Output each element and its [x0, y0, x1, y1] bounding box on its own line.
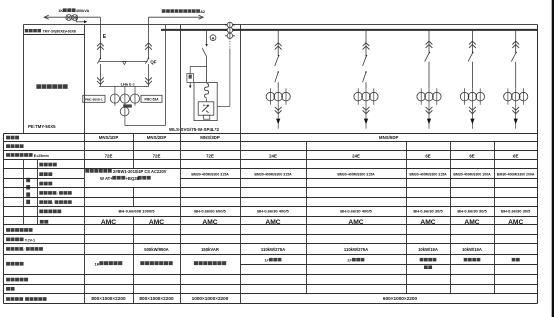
- feeder F5 CT b: [362, 92, 371, 101]
- svg-text:BM30-400M/3300 315A: BM30-400M/3300 315A: [191, 173, 229, 177]
- feeder F7 breaker switch: [472, 52, 474, 54]
- svg-text:BM30-400M/3300 200A: BM30-400M/3300 200A: [497, 173, 535, 177]
- power module IGBT glyph: [202, 105, 209, 111]
- svg-text:PE:TMY-50X5: PE:TMY-50X5: [28, 124, 56, 129]
- row: circuit number label: [6, 144, 10, 148]
- wire: phase a drop: [114, 86, 116, 105]
- feeder F5 phase wires: [357, 88, 359, 105]
- feeder F5 CT c: [370, 92, 379, 101]
- wire: joined bus below incomers: [99, 85, 149, 87]
- svg-text:110kW/275A: 110kW/275A: [261, 247, 285, 252]
- section divider right edge: [537, 25, 539, 134]
- wire: SVG right loop: [229, 22, 231, 38]
- svg-text:10kW/19A: 10kW/19A: [418, 247, 438, 252]
- svg-text:PMC-880D-L: PMC-880D-L: [85, 98, 103, 102]
- feeder F7 drawout contact (bottom): [469, 107, 476, 110]
- feeder F6 drawout contact (top): [426, 41, 433, 44]
- breaker E switch: [100, 57, 102, 59]
- drawout contact (bottom) of breaker QF: [145, 78, 152, 81]
- row: drawer unit height: [6, 153, 10, 157]
- feeder F8 CT b: [511, 92, 520, 101]
- surge arrester F1: [187, 74, 194, 83]
- feeder F6 drop wire: [428, 30, 430, 52]
- svg-text:E=25mm: E=25mm: [34, 154, 49, 158]
- breaker QF switch: [148, 57, 150, 59]
- main busbar line 2: [161, 29, 538, 31]
- svg-text:BH-0.66/30 400/5: BH-0.66/30 400/5: [257, 209, 289, 214]
- svg-text:BH-0.66/30 400/5: BH-0.66/30 400/5: [340, 209, 372, 214]
- svg-text:10kW/19A: 10kW/19A: [462, 247, 482, 252]
- svg-text:AMC: AMC: [101, 219, 116, 226]
- feeder F4 drawout contact (bottom): [275, 107, 282, 110]
- svg-text:MNS/1DP: MNS/1DP: [99, 135, 119, 140]
- feeder F5 drawout contact (bottom): [363, 107, 370, 110]
- feeder F4 phase wires: [269, 88, 271, 105]
- svg-text:A2: A2: [200, 10, 205, 14]
- svg-text:+BQ2B: +BQ2B: [125, 176, 139, 181]
- section divider (scheme cell): [23, 25, 25, 134]
- feeder F7 CT b: [468, 92, 477, 101]
- neutral CT circle: [120, 107, 129, 116]
- svg-text:AMC: AMC: [149, 219, 164, 226]
- feeder F8 phase wires: [507, 88, 509, 105]
- svg-text:BH-0.66/30 30/5: BH-0.66/30 30/5: [457, 209, 487, 214]
- svg-text:BH-0.66/60 600/5: BH-0.66/60 600/5: [194, 209, 226, 214]
- main horizontal line 1 (top border / PE bus): [24, 24, 538, 26]
- svg-text:MNS/5DP: MNS/5DP: [379, 135, 399, 140]
- CT 1LHb label: [123, 104, 132, 107]
- svg-text:AMC: AMC: [508, 219, 523, 226]
- feeder F8 breaker switch: [515, 52, 517, 54]
- row label: cabinet size WxDxH: [6, 297, 10, 301]
- feeder F4 drop wire: [277, 30, 279, 55]
- svg-text:BM30-400M/3300 315A: BM30-400M/3300 315A: [254, 173, 292, 177]
- svg-text:24E: 24E: [352, 153, 360, 158]
- wire: arrester branch: [190, 65, 206, 67]
- feeder F6 CT c: [433, 92, 442, 101]
- section divider x180: [180, 25, 182, 134]
- meter PMC-53A box: [141, 95, 162, 102]
- wire: SVG feeder drop: [206, 30, 208, 45]
- drawout contact (bottom) of breaker E: [97, 78, 104, 81]
- svg-text:PMC-53A: PMC-53A: [145, 98, 160, 102]
- feeder F7 outgoing arrow: [470, 119, 474, 125]
- feeder F7 drop wire: [471, 30, 473, 52]
- section divider x84: [84, 25, 86, 134]
- svg-text:AMC: AMC: [348, 219, 363, 226]
- feeder F6 drawout contact (bottom): [426, 107, 433, 110]
- transformer T1 incoming line: [44, 16, 100, 18]
- svg-text:BH-0.66/60II 1000/5: BH-0.66/60II 1000/5: [118, 209, 155, 214]
- row label: transformer/soft starter: [39, 200, 43, 204]
- feeder F7 CT a: [460, 92, 469, 101]
- feeder F6 breaker switch: [429, 52, 431, 54]
- svg-text:MNS/3DP: MNS/3DP: [200, 135, 220, 140]
- svg-text:BM30-400M/3300 315A: BM30-400M/3300 315A: [409, 173, 447, 177]
- svg-text:BH-0.66/30 30/5: BH-0.66/30 30/5: [501, 209, 531, 214]
- wire: metering loop riser: [165, 25, 167, 126]
- SVG reactor coil: [205, 84, 209, 98]
- transformer T1 (1K working transformer 400kVA) two-circle symbol: [66, 15, 72, 21]
- svg-text:AMC: AMC: [265, 219, 280, 226]
- sheet border line (right edge): [552, 0, 554, 317]
- lighting sub-row: [424, 266, 428, 270]
- feeder F4 CT c: [282, 92, 291, 101]
- svg-text:BH-0.66/30 30/5: BH-0.66/30 30/5: [413, 209, 443, 214]
- row: cabinet numbers: [6, 136, 10, 140]
- SVG power module box U1: [198, 102, 214, 115]
- feeder F8 drawout contact (top): [512, 41, 519, 44]
- feeder F4 outgoing arrow: [276, 119, 280, 125]
- feeder F4 drawout contact (top): [275, 43, 282, 46]
- feeder F4 CT b: [274, 92, 283, 101]
- busbar spec box: [24, 34, 85, 36]
- svg-text:400kVA: 400kVA: [76, 9, 90, 13]
- svg-text:AMC: AMC: [202, 219, 217, 226]
- sub-row divider (lighting row): [241, 264, 538, 266]
- feeder F5 breaker switch (double break): [366, 55, 368, 57]
- svg-text:QF: QF: [150, 59, 156, 64]
- row label: secondary schematic: [6, 278, 10, 282]
- svg-text:BM30-400M/3300 315A: BM30-400M/3300 315A: [337, 173, 375, 177]
- svg-text:AMC: AMC: [464, 219, 479, 226]
- feeder F4 breaker switch (double break): [278, 55, 280, 57]
- drawout contact (top) of breaker QF: [145, 43, 152, 46]
- row label: remarks: [6, 287, 10, 291]
- svg-text:6E: 6E: [425, 153, 430, 158]
- CT LHb: [120, 94, 129, 103]
- meter PMC-880D-L box: [83, 95, 105, 102]
- feeder F4 CT a: [266, 92, 275, 101]
- svg-text:1000×1000×2200: 1000×1000×2200: [192, 296, 229, 301]
- feeder F7 phase wires: [464, 88, 466, 105]
- svg-text:600×1000×2200: 600×1000×2200: [383, 296, 418, 301]
- row label: contactor: [39, 182, 43, 186]
- feeder F5 outgoing arrow: [364, 119, 368, 125]
- svg-text:WLS-SVG/75-W-SP4L*2: WLS-SVG/75-W-SP4L*2: [169, 127, 219, 132]
- svg-text:800×1000×2200: 800×1000×2200: [91, 296, 126, 301]
- row label: cable type: [6, 238, 10, 242]
- svg-text:LHa b c: LHa b c: [121, 81, 136, 86]
- svg-text:110kW/275A: 110kW/275A: [344, 247, 368, 252]
- row label: circuit name: [6, 262, 10, 266]
- wire: centre phase drop: [124, 86, 126, 126]
- SVG breaker switch: [202, 48, 206, 56]
- drawout contact (top) of breaker E: [97, 43, 104, 46]
- diesel generator cable A2 arrow line: [149, 16, 203, 18]
- svg-text:MNS/2DP: MNS/2DP: [147, 135, 167, 140]
- row label: isolator: [39, 163, 43, 167]
- feeder F5 CT a: [354, 92, 363, 101]
- feeder F6 phase wires: [420, 88, 422, 105]
- busbar plug contact 2: [227, 27, 232, 32]
- feeder F8 CT c: [519, 92, 528, 101]
- section divider x240: [240, 25, 242, 134]
- svg-text:BM30-400M/3300 100A: BM30-400M/3300 100A: [453, 173, 491, 177]
- module bottom terminal: [203, 115, 209, 119]
- open arrowhead pointing left at line start: [44, 15, 49, 19]
- feeder F6 CT a: [417, 92, 426, 101]
- table vertical borders: [3, 134, 5, 304]
- svg-text:1K: 1K: [58, 9, 63, 13]
- svg-text:150kVAR: 150kVAR: [201, 247, 219, 252]
- busbar plug contact 1: [227, 22, 232, 27]
- svg-text:AMC: AMC: [420, 219, 435, 226]
- row label: current transformer: [39, 210, 43, 214]
- table horizontal borders: [4, 133, 538, 135]
- feeder F6 CT b: [425, 92, 434, 101]
- feeder F7 drawout contact (top): [469, 41, 476, 44]
- row label: thermal relay/protector: [39, 191, 43, 195]
- main equipment group vertical label: [26, 178, 30, 182]
- feeder F6 outgoing arrow: [427, 119, 431, 125]
- wire: phase c drop: [134, 86, 136, 105]
- svg-text:500kW/950A: 500kW/950A: [144, 247, 168, 252]
- svg-text:24E: 24E: [269, 153, 277, 158]
- svg-text:72E: 72E: [153, 153, 161, 158]
- row label: breaker: [39, 172, 43, 176]
- svg-text:W AT+: W AT+: [100, 176, 113, 181]
- busbar spec label: [25, 29, 29, 32]
- svg-text:72E: 72E: [105, 153, 113, 158]
- feeder F5 drop wire: [365, 30, 367, 55]
- node: incomer E feeder: [99, 17, 101, 58]
- row label: load capacity/current: [6, 247, 10, 251]
- svg-text:A: A: [212, 35, 215, 40]
- svg-text:800×1000×2200: 800×1000×2200: [139, 296, 174, 301]
- mechanical interlock line between E and QF: [99, 60, 148, 62]
- svg-text:TMY-3X(80X8)+63X8: TMY-3X(80X8)+63X8: [43, 30, 76, 34]
- CT LHc: [130, 94, 139, 103]
- scheme column label: [36, 84, 41, 89]
- feed direction arrow under transformer: [75, 17, 77, 22]
- feeder F8 drawout contact (bottom): [512, 107, 519, 110]
- interlock triangle marker: [123, 62, 127, 65]
- ammeter A: [210, 35, 216, 41]
- row label: equipment number: [6, 228, 10, 232]
- feeder F8 drop wire: [515, 30, 517, 52]
- busbar plug contact 3: [227, 33, 232, 38]
- node: generator incomer QF feeder: [148, 17, 150, 58]
- breaker ATS text lines (merged cell): [85, 169, 89, 173]
- SVG unit outer box: [194, 82, 217, 120]
- diesel generator cable label: [162, 9, 166, 13]
- wire: metering loop bottom: [125, 125, 166, 127]
- CT LHa: [110, 94, 119, 103]
- row label: instruments: [40, 220, 44, 224]
- svg-text:6E: 6E: [469, 153, 474, 158]
- feeder F7 CT c: [476, 92, 485, 101]
- svg-text:YJV-1: YJV-1: [25, 238, 35, 242]
- svg-text:2#BW1-2010/4P CS AC220V: 2#BW1-2010/4P CS AC220V: [113, 169, 167, 174]
- feeder F8 CT a: [504, 92, 513, 101]
- svg-text:1K: 1K: [94, 261, 99, 266]
- svg-text:6E: 6E: [513, 153, 518, 158]
- svg-text:72E: 72E: [206, 153, 214, 158]
- feeder F8 outgoing arrow: [514, 119, 518, 125]
- feeder F5 drawout contact (top): [363, 43, 370, 46]
